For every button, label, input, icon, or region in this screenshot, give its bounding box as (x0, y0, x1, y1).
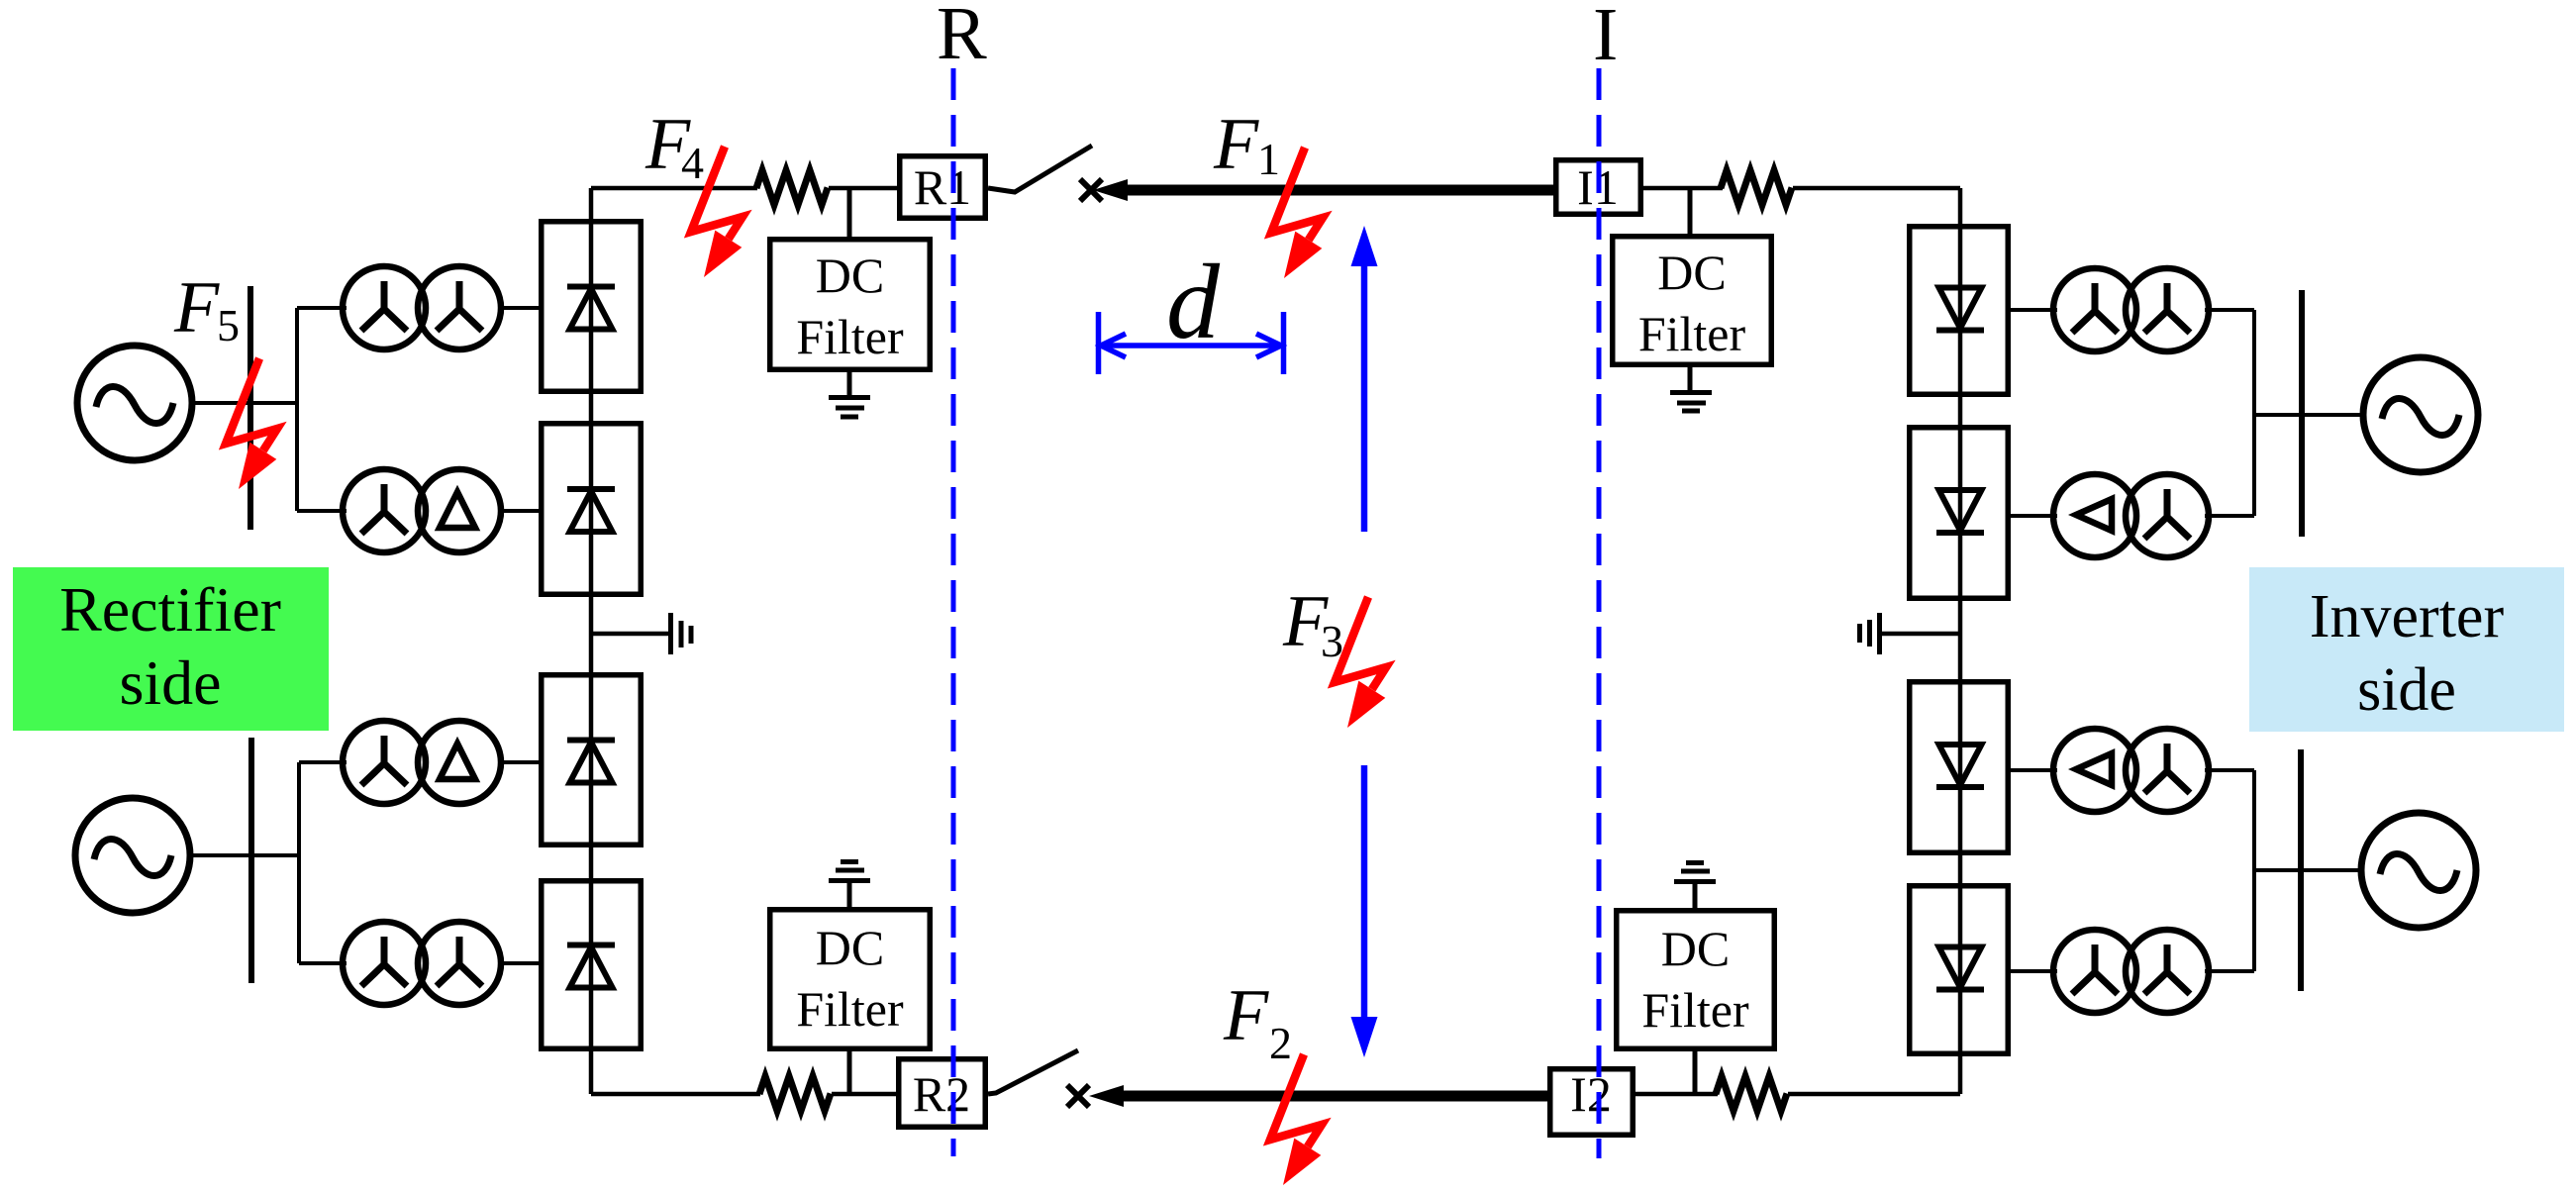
valve group V6 box (1910, 428, 2009, 599)
wire G2 to bus/branch (190, 853, 299, 857)
wire I2 to reactor L4 (1635, 1092, 1718, 1097)
valve group V2 box (542, 424, 642, 595)
smoothing reactor L2 (resistor zigzag) (1721, 170, 1792, 205)
wire branch to transformer T4 (299, 961, 347, 965)
fault bolt F5 (226, 358, 277, 489)
transformer T4 (Y-Y rectifier lower) (343, 922, 501, 1005)
svg-text:F: F (173, 267, 220, 348)
svg-text:I2: I2 (1570, 1066, 1612, 1122)
svg-text:R1: R1 (914, 159, 971, 215)
svg-text:DC: DC (1661, 921, 1730, 976)
valve group V7 box (1910, 682, 2009, 853)
wire V5 to T5 (2011, 308, 2057, 312)
wire T2 to valve group V2 (501, 509, 541, 513)
bottom pole wire (rectifier side) (591, 1092, 760, 1097)
wire branch to transformer T3 (299, 760, 347, 764)
svg-text:DC: DC (816, 248, 884, 303)
bus bar B1 (rectifier top) (248, 286, 253, 530)
wire T7 to connector (2205, 768, 2254, 772)
switch S2 (bottom) (988, 1050, 1078, 1094)
connector vertical (inverter bottom pair) (2252, 770, 2256, 971)
wire T3 to valve group V3 (501, 760, 541, 764)
DC filter box (inverter top) (1613, 237, 1772, 365)
wire L4 to inverter chain (1788, 1092, 1960, 1097)
DC transmission line (bottom, thick) (1122, 1091, 1547, 1102)
dimension d left tick (1096, 312, 1102, 374)
transformer T1 (Y-Y rectifier upper) (343, 266, 501, 349)
bus bar B2 (rectifier bottom) (248, 738, 254, 983)
stub to DC filter (inverter top) (1688, 188, 1693, 235)
fault bolt F1 (1271, 148, 1323, 278)
fault label F2 (1223, 975, 1292, 1068)
transformer T6 (D-Y inverter upper) (2053, 474, 2209, 557)
measuring point box I1 (1556, 159, 1641, 215)
DC transmission line arrowhead (top) (1093, 179, 1128, 201)
ground above DC filter (rectifier bottom) (829, 862, 870, 908)
transformer T5 (Y-Y inverter upper) (2053, 268, 2209, 351)
svg-text:4: 4 (681, 138, 704, 188)
wire branch to transformer T1 (297, 306, 347, 310)
fault label F1 (1213, 104, 1280, 185)
valve group V5 box (1910, 227, 2009, 395)
wire T6 to connector (2205, 514, 2254, 518)
valve group V4 box (542, 881, 642, 1049)
label: Inverter side blue box (2249, 567, 2564, 732)
wire L3 to R2 (832, 1092, 896, 1097)
fault cross X1 (top line end) (1080, 179, 1102, 201)
DC chain line (rectifier pole) (589, 188, 594, 1094)
branch wire vertical (rectifier top) (295, 308, 299, 511)
wire V8 to T8 (2011, 969, 2057, 973)
svg-text:5: 5 (217, 300, 240, 350)
svg-text:Filter: Filter (1638, 306, 1746, 361)
dashed measurement line R (951, 68, 956, 1156)
svg-text:side: side (2357, 656, 2456, 724)
wire T5 to connector (2205, 308, 2254, 312)
smoothing reactor L1 (resistor zigzag) (756, 170, 828, 205)
AC source G1 (rectifier top) (77, 346, 192, 460)
fault label F3 (1282, 581, 1343, 666)
dimension d right tick (1281, 312, 1287, 374)
DC transmission line arrowhead (bottom) (1089, 1085, 1124, 1107)
AC source G3 (inverter top) (2363, 357, 2478, 472)
wire L2 to inverter chain (1793, 186, 1960, 191)
ground below DC filter (rectifier top) (829, 372, 870, 417)
wire V7 to T7 (2011, 768, 2057, 772)
dimension d arrow line (1101, 334, 1281, 357)
svg-text:Filter: Filter (1641, 982, 1749, 1038)
measuring point box I2 (1550, 1066, 1634, 1135)
DC chain line (inverter pole) (1958, 188, 1963, 1094)
svg-text:Filter: Filter (796, 309, 904, 364)
wire G1 to bus/branch (191, 401, 297, 405)
valve group V8 box (1910, 886, 2009, 1054)
DC filter box (rectifier bottom) (770, 910, 931, 1049)
wire L1 to R1 (829, 186, 897, 191)
blue arrow down (fault direction) (1351, 765, 1378, 1057)
wire T1 to valve group V1 (501, 306, 541, 310)
valve group V3 box (542, 675, 642, 846)
DC filter box (rectifier top) (770, 240, 931, 370)
wire G3 to bus/connector (2254, 413, 2364, 417)
svg-text:I: I (1593, 0, 1618, 76)
transformer T8 (Y-Y inverter lower) (2053, 930, 2209, 1013)
top pole wire (rectifier side) (591, 186, 757, 191)
wire T4 to valve group V4 (501, 961, 541, 965)
fault bolt F2 (1270, 1054, 1322, 1185)
dashed measurement line I (1597, 68, 1602, 1158)
valve group V1 box (542, 222, 642, 392)
svg-text:R: R (937, 0, 987, 75)
svg-text:F: F (1223, 975, 1269, 1056)
svg-text:Filter: Filter (796, 981, 904, 1037)
svg-text:1: 1 (1257, 134, 1280, 184)
ground (rectifier neutral, pointing right) (671, 613, 692, 654)
stub to DC filter (rectifier bottom) (847, 1051, 852, 1094)
bus bar B3 (inverter top) (2299, 290, 2305, 537)
svg-text:DC: DC (816, 920, 884, 975)
wire V6 to T6 (2011, 514, 2057, 518)
svg-text:F: F (1213, 104, 1259, 185)
svg-text:DC: DC (1657, 245, 1726, 300)
stub to DC filter F-TL (847, 188, 852, 238)
branch wire vertical (rectifier bottom) (297, 762, 301, 963)
neutral tap wire (inverter) (1880, 632, 1960, 637)
transformer T2 (Y-D rectifier upper) (343, 469, 501, 552)
smoothing reactor L3 (resistor zigzag) (759, 1076, 831, 1111)
transformer T7 (D-Y inverter lower) (2053, 729, 2209, 812)
svg-text:Inverter: Inverter (2310, 583, 2505, 650)
label: Rectifier side green box (13, 567, 329, 731)
wire branch to transformer T2 (297, 509, 347, 513)
ground below DC filter (inverter top) (1670, 367, 1712, 411)
neutral tap wire (rectifier) (591, 632, 669, 637)
fault bolt F3 (1335, 597, 1386, 728)
svg-text:R2: R2 (913, 1066, 970, 1122)
smoothing reactor L4 (resistor zigzag) (1716, 1076, 1787, 1111)
fault bolt F4 (691, 147, 743, 277)
ground above DC filter (inverter bottom) (1674, 863, 1716, 909)
svg-text:side: side (119, 647, 221, 718)
AC source G4 (inverter bottom) (2361, 813, 2476, 928)
stub to DC filter (inverter bottom) (1693, 1051, 1698, 1094)
blue arrow up (fault direction) (1351, 226, 1378, 532)
svg-text:Rectifier: Rectifier (59, 574, 281, 645)
transformer T3 (Y-D rectifier lower) (343, 721, 501, 804)
bus bar B4 (inverter bottom) (2298, 749, 2304, 991)
fault cross X2 (bottom line end) (1067, 1085, 1089, 1107)
svg-text:2: 2 (1269, 1018, 1292, 1068)
ground (inverter neutral, pointing left) (1860, 613, 1880, 654)
measuring point box R2 (899, 1059, 986, 1128)
switch S1 (top) (988, 146, 1092, 192)
measuring point box R1 (900, 156, 986, 219)
AC source G2 (rectifier bottom) (75, 798, 190, 913)
wire G4 to bus/connector (2254, 868, 2362, 872)
fault label F5 (173, 267, 240, 350)
wire I1 to reactor L2 (1643, 186, 1723, 191)
svg-text:d: d (1166, 244, 1221, 361)
wire T8 to connector (2205, 969, 2254, 973)
fault label F4 (644, 104, 704, 188)
DC transmission line (top, thick) (1126, 185, 1553, 196)
DC filter box (inverter bottom) (1617, 911, 1775, 1049)
connector vertical (inverter top pair) (2252, 310, 2256, 516)
